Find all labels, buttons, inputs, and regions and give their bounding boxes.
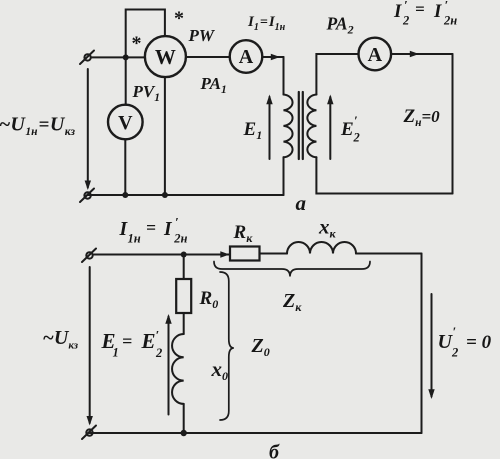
inductor x0 — [172, 334, 184, 404]
resistor Rk — [230, 247, 260, 261]
wire: top wire to Rk with current arrow — [93, 251, 230, 258]
label I2'=I2n' — [393, 0, 457, 28]
wire: right side down (b) — [421, 254, 423, 434]
svg-text:PV1: PV1 — [132, 82, 160, 104]
svg-text:2: 2 — [353, 131, 360, 145]
svg-text:E: E — [340, 119, 354, 140]
voltmeter V (PV1) — [108, 105, 143, 140]
svg-text:=: = — [415, 0, 425, 19]
wire: secondary top to PA2 — [316, 54, 358, 95]
svg-text:′: ′ — [404, 0, 408, 13]
svg-text:б: б — [269, 442, 280, 459]
svg-text:V: V — [118, 112, 133, 134]
svg-text:A: A — [368, 44, 383, 66]
wire: PA2 to right side with current arrow — [391, 51, 452, 58]
svg-text:*: * — [174, 8, 184, 30]
wire: secondary bottom — [316, 157, 452, 193]
terminal bottom-left (b) — [82, 426, 96, 440]
svg-text:Z0: Z0 — [251, 335, 270, 359]
voltage arrow left (b) — [87, 267, 93, 426]
brace Z0 (vertical) — [220, 272, 234, 420]
svg-text:~U1н=Uкз: ~U1н=Uкз — [0, 114, 75, 139]
node dot V bottom — [122, 192, 128, 198]
transformer core — [299, 92, 303, 159]
svg-text:′: ′ — [453, 324, 457, 339]
arrow E1=E2' (b) — [165, 314, 171, 415]
wire: primary coil to bottom — [283, 157, 285, 195]
svg-text:2н: 2н — [173, 232, 187, 246]
svg-text:=: = — [122, 331, 132, 351]
ammeter PA1 — [230, 40, 263, 73]
wire: R0 to x0 — [183, 313, 185, 334]
wire: right side down — [452, 54, 454, 194]
svg-text:xк: xк — [318, 215, 337, 241]
svg-text:W: W — [155, 45, 176, 69]
node junction at wattmeter voltage tap — [123, 54, 129, 60]
label U2'=0 — [438, 324, 492, 360]
wire: Rk to xk — [260, 253, 288, 255]
resistor R0 — [176, 279, 191, 313]
wire: wattmeter voltage-coil loop — [126, 10, 165, 58]
transformer secondary winding — [307, 95, 316, 158]
svg-text:I1=I1н: I1=I1н — [247, 14, 286, 33]
terminal bottom-left — [80, 189, 94, 203]
svg-text:Zк: Zк — [282, 290, 302, 314]
wire: V meter branch — [125, 57, 127, 104]
terminal top-left — [80, 51, 94, 65]
wire: bottom wire (b) — [90, 432, 422, 434]
label E2' — [340, 113, 360, 145]
svg-text:*: * — [132, 33, 142, 55]
node dot W bottom — [162, 192, 168, 198]
label I1n=I2n' — [119, 215, 188, 246]
svg-text:=: = — [146, 218, 156, 238]
brace Zk (horizontal) — [214, 262, 370, 277]
svg-text:E1: E1 — [243, 119, 263, 142]
svg-text:PA2: PA2 — [326, 14, 354, 37]
svg-text:′: ′ — [156, 328, 160, 343]
wire: V meter to bottom — [124, 139, 126, 195]
svg-text:x0: x0 — [211, 357, 229, 383]
svg-text:Rк: Rк — [233, 222, 254, 245]
ammeter PA2 — [359, 38, 392, 71]
wire: bottom of circuit a primary loop — [88, 194, 284, 196]
wire: W to ammeter PA1 — [186, 56, 230, 58]
wire: PA1 to primary with current arrow — [262, 54, 283, 61]
svg-text:I: I — [163, 219, 173, 240]
svg-text:2н: 2н — [443, 14, 457, 28]
wire: junction down to R0 — [183, 255, 185, 280]
wire: W current coil return — [164, 77, 166, 195]
transformer primary winding — [284, 95, 293, 158]
svg-text:PW: PW — [188, 26, 216, 45]
svg-text:′: ′ — [354, 113, 358, 128]
svg-text:2: 2 — [451, 346, 458, 360]
node dot bottom (b) — [181, 430, 187, 436]
svg-text:R0: R0 — [199, 288, 219, 311]
svg-text:PA1: PA1 — [200, 74, 227, 96]
svg-text:′: ′ — [445, 0, 449, 13]
svg-text:Zн=0: Zн=0 — [403, 106, 441, 129]
terminal top-left (b) — [82, 249, 96, 263]
arrow U2'=0 — [428, 294, 434, 399]
svg-text:E: E — [141, 329, 156, 353]
inductor xk — [287, 242, 356, 254]
svg-text:= 0: = 0 — [466, 332, 492, 353]
wattmeter W (PW) — [145, 36, 186, 77]
label E1=E2' — [101, 328, 163, 361]
svg-text:1н: 1н — [128, 232, 141, 246]
svg-text:2: 2 — [155, 346, 162, 360]
svg-text:1: 1 — [113, 346, 119, 360]
wire: xk to right corner — [356, 253, 422, 255]
svg-text:а: а — [296, 191, 307, 215]
arrow E2' — [327, 95, 333, 160]
svg-text:~Uкз: ~Uкз — [43, 327, 79, 352]
svg-text:A: A — [239, 46, 254, 68]
wire: down to primary coil — [283, 57, 285, 95]
voltage arrow left (a) — [85, 69, 91, 190]
wire: top-left terminal to junction — [91, 56, 126, 58]
svg-text:I: I — [433, 1, 442, 22]
wire: x0 to bottom — [183, 404, 185, 433]
arrow E1 — [266, 95, 272, 160]
wire: junction to W — [126, 56, 145, 58]
svg-text:I: I — [393, 1, 402, 22]
svg-text:′: ′ — [175, 215, 179, 230]
svg-text:2: 2 — [402, 14, 409, 28]
node junction top (b) — [181, 252, 187, 258]
